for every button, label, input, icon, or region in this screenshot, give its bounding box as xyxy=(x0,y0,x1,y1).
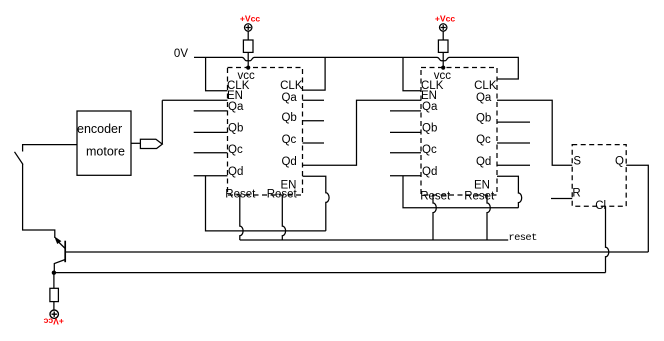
svg-text:reset: reset xyxy=(508,232,537,244)
svg-text:Reset: Reset xyxy=(420,191,451,203)
svg-text:encoder: encoder xyxy=(77,122,122,136)
svg-text:Qb: Qb xyxy=(281,112,296,124)
svg-text:Qb: Qb xyxy=(422,123,437,135)
svg-text:+Vcc: +Vcc xyxy=(435,13,456,23)
svg-text:S: S xyxy=(573,156,581,168)
svg-text:Cl: Cl xyxy=(595,200,606,212)
svg-text:Qa: Qa xyxy=(422,101,438,113)
svg-text:Qa: Qa xyxy=(476,92,492,104)
svg-text:Reset: Reset xyxy=(225,189,256,201)
svg-text:Qc: Qc xyxy=(476,134,491,146)
svg-text:Qc: Qc xyxy=(422,144,437,156)
svg-text:Q: Q xyxy=(615,156,624,168)
svg-text:Qd: Qd xyxy=(281,156,296,168)
svg-text:R: R xyxy=(572,188,580,200)
svg-text:Qd: Qd xyxy=(476,156,491,168)
svg-text:Qc: Qc xyxy=(282,134,297,146)
svg-text:0V: 0V xyxy=(174,48,188,60)
svg-text:Qb: Qb xyxy=(228,123,243,135)
svg-text:Qd: Qd xyxy=(228,166,243,178)
svg-text:Qd: Qd xyxy=(422,166,437,178)
svg-text:motore: motore xyxy=(86,145,125,159)
svg-text:Reset: Reset xyxy=(267,189,298,201)
svg-text:Qa: Qa xyxy=(228,101,244,113)
svg-text:Qc: Qc xyxy=(228,144,243,156)
svg-text:+Vcc: +Vcc xyxy=(43,317,64,327)
svg-text:CLK: CLK xyxy=(280,80,303,92)
svg-text:Qb: Qb xyxy=(476,113,491,125)
svg-text:Qa: Qa xyxy=(281,92,297,104)
svg-text:+Vcc: +Vcc xyxy=(240,13,261,23)
svg-text:Reset: Reset xyxy=(464,191,495,203)
svg-text:CLK: CLK xyxy=(474,80,497,92)
